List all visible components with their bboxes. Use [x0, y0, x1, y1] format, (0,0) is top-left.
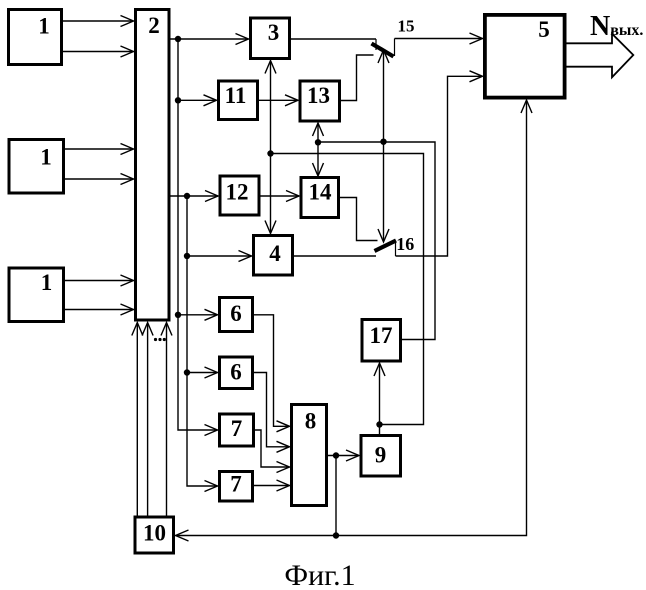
svg-text:5: 5 — [538, 17, 550, 42]
svg-text:1: 1 — [40, 145, 52, 170]
svg-text:12: 12 — [226, 180, 249, 205]
svg-text:10: 10 — [143, 521, 166, 546]
svg-text:11: 11 — [225, 83, 247, 108]
svg-text:15: 15 — [398, 17, 415, 36]
svg-text:16: 16 — [396, 234, 414, 254]
svg-text:3: 3 — [268, 20, 280, 45]
svg-text:6: 6 — [230, 301, 242, 326]
svg-text:9: 9 — [375, 443, 387, 468]
svg-text:7: 7 — [231, 416, 243, 441]
svg-text:2: 2 — [148, 13, 160, 38]
svg-text:6: 6 — [230, 360, 242, 385]
svg-text:13: 13 — [307, 83, 330, 108]
svg-text:1: 1 — [41, 270, 53, 295]
svg-text:1: 1 — [38, 14, 50, 39]
svg-text:Фиг.1: Фиг.1 — [284, 559, 355, 590]
svg-text:4: 4 — [269, 241, 281, 266]
svg-text:14: 14 — [309, 180, 333, 205]
svg-text:7: 7 — [230, 472, 242, 497]
svg-text:8: 8 — [305, 409, 317, 434]
svg-text:17: 17 — [370, 323, 393, 348]
